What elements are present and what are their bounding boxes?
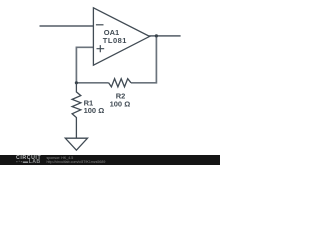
op-amp plus sign [97,45,105,52]
watermark bar [0,155,220,165]
wire top input to inverting pin [40,25,94,27]
svg-text:100 Ω: 100 Ω [110,99,131,108]
wire non-inverting input (left then down) [76,47,93,83]
ground symbol [65,138,87,150]
resistor R2 (horizontal zigzag) [109,79,131,87]
svg-text:100 Ω: 100 Ω [84,106,105,115]
wire R2 left segment [76,82,108,84]
wire output [149,35,180,37]
node junction dot at + input / R1 / R2 [75,81,78,84]
op-amp minus sign [96,24,104,26]
svg-text:TL081: TL081 [103,36,127,45]
op-amp OA1 triangle [93,8,149,65]
wire feedback right and up [131,36,156,83]
node output junction dot [155,34,158,37]
resistor R1 (vertical zigzag) [72,83,81,138]
watermark CircuitLab logo [16,156,41,165]
watermark sponsor text [47,156,106,164]
